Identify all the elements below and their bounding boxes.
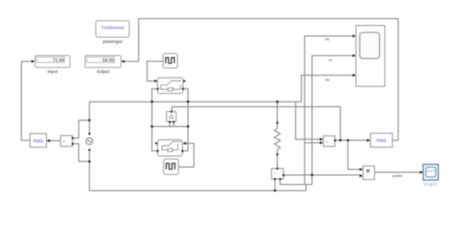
- svg-text:In: In: [329, 58, 332, 62]
- svg-text:59.05: 59.05: [103, 57, 115, 62]
- svg-text:output: output: [97, 69, 110, 74]
- svg-text:Vb: Vb: [325, 38, 330, 42]
- svg-text:Continuous: Continuous: [101, 25, 125, 30]
- svg-text:RMS: RMS: [33, 138, 43, 143]
- svg-text:v: v: [63, 140, 65, 144]
- svg-text:RMS: RMS: [377, 138, 387, 143]
- svg-text:power: power: [392, 174, 403, 178]
- svg-text:v: v: [326, 140, 328, 144]
- svg-text:Scope1: Scope1: [424, 182, 439, 187]
- svg-text:?: ?: [100, 32, 102, 36]
- svg-text:input: input: [48, 69, 59, 74]
- svg-text:powergui: powergui: [103, 39, 122, 45]
- svg-text:72.99: 72.99: [53, 57, 65, 62]
